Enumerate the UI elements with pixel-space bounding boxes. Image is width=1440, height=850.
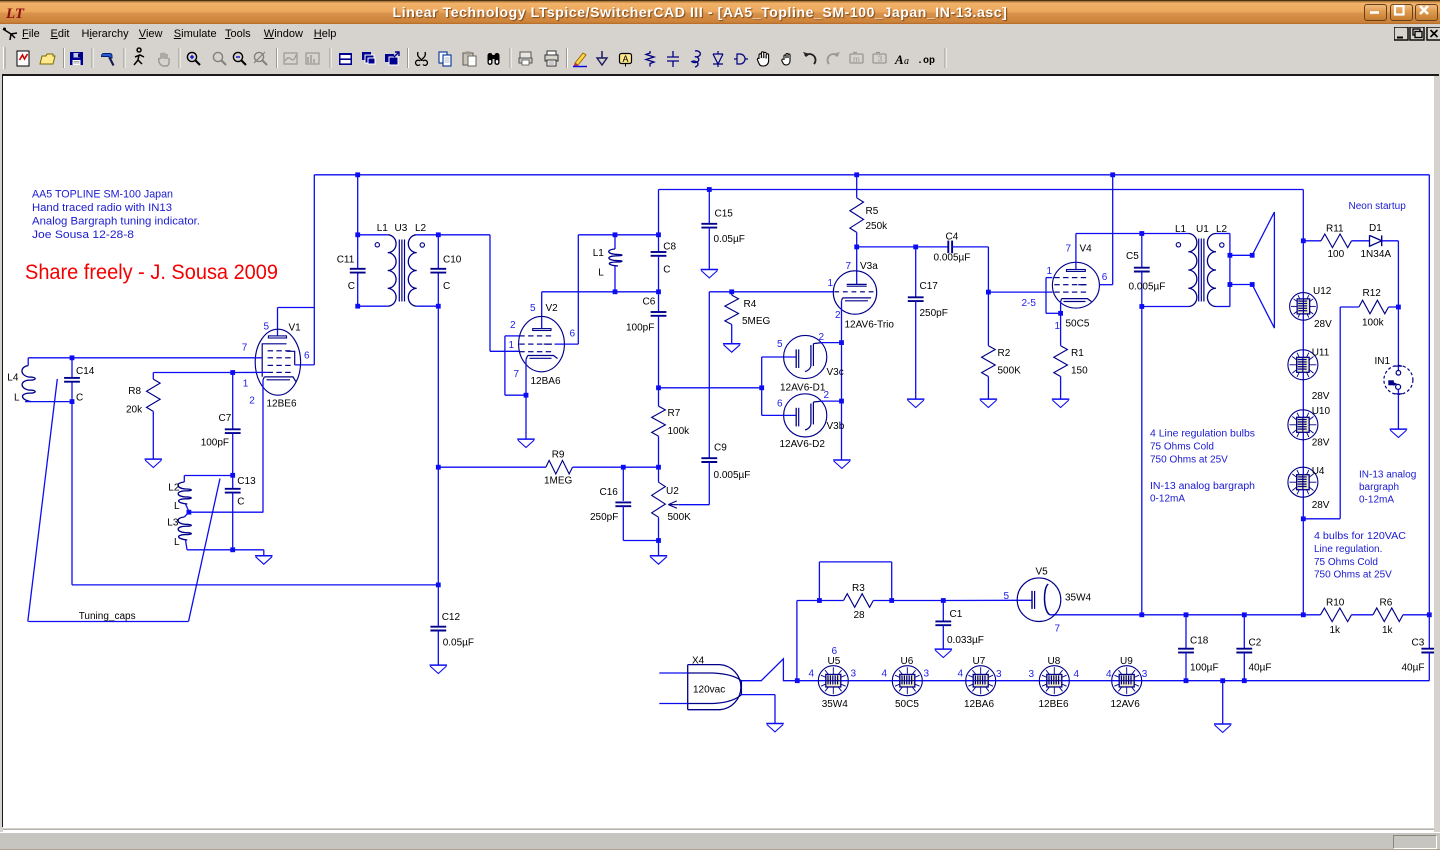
svg-text:75 Ohms Cold: 75 Ohms Cold [1314, 557, 1378, 568]
svg-text:R11: R11 [1326, 223, 1344, 234]
svg-text:Share freely - J. Sousa 2009: Share freely - J. Sousa 2009 [25, 260, 278, 284]
svg-text:C13: C13 [237, 476, 256, 487]
svg-text:1: 1 [1055, 321, 1061, 332]
svg-text:U10: U10 [1312, 406, 1331, 417]
svg-text:500K: 500K [668, 512, 692, 523]
svg-text:12BA6: 12BA6 [964, 699, 994, 710]
svg-text:4 Line regulation bulbs: 4 Line regulation bulbs [1150, 428, 1255, 439]
svg-text:100k: 100k [1362, 317, 1385, 328]
svg-text:C: C [663, 264, 670, 275]
svg-text:12AV6-Trio: 12AV6-Trio [845, 319, 895, 330]
svg-text:R6: R6 [1380, 597, 1393, 608]
svg-text:250pF: 250pF [920, 308, 948, 319]
svg-text:C: C [237, 496, 244, 507]
svg-text:V3b: V3b [827, 421, 845, 432]
svg-text:40µF: 40µF [1249, 662, 1272, 673]
svg-text:0.005µF: 0.005µF [934, 252, 971, 263]
svg-text:12AV6-D2: 12AV6-D2 [780, 438, 826, 449]
svg-text:C6: C6 [643, 296, 656, 307]
svg-text:Neon startup: Neon startup [1349, 201, 1407, 212]
svg-text:C16: C16 [600, 487, 619, 498]
svg-text:28V: 28V [1312, 437, 1330, 448]
svg-text:Tuning_caps: Tuning_caps [79, 611, 136, 622]
svg-text:X4: X4 [692, 655, 705, 666]
svg-text:28: 28 [854, 610, 866, 621]
svg-text:7: 7 [242, 342, 248, 353]
svg-text:C8: C8 [663, 241, 676, 252]
svg-text:4: 4 [958, 668, 964, 679]
svg-text:R10: R10 [1326, 597, 1345, 608]
svg-text:A: A [622, 54, 628, 64]
svg-text:4: 4 [882, 668, 888, 679]
svg-text:0.005µF: 0.005µF [714, 470, 751, 481]
svg-text:28V: 28V [1314, 319, 1332, 330]
svg-text:1: 1 [509, 340, 515, 351]
svg-text:120vac: 120vac [693, 684, 725, 695]
svg-text:35W4: 35W4 [822, 699, 849, 710]
svg-text:R12: R12 [1363, 288, 1382, 299]
svg-text:L2: L2 [168, 482, 180, 493]
svg-text:Hand traced radio with IN13: Hand traced radio with IN13 [32, 202, 172, 214]
svg-text:3: 3 [996, 669, 1002, 680]
svg-text:R3: R3 [852, 583, 865, 594]
svg-text:3: 3 [1142, 669, 1148, 680]
svg-text:C15: C15 [715, 208, 734, 219]
svg-text:L1: L1 [1175, 224, 1187, 235]
svg-text:6: 6 [832, 646, 838, 657]
svg-text:3: 3 [924, 668, 930, 679]
svg-text:C: C [348, 281, 355, 292]
svg-text:bargraph: bargraph [1359, 482, 1399, 493]
svg-text:2: 2 [249, 395, 255, 406]
svg-text:L1: L1 [593, 248, 605, 259]
svg-text:C1: C1 [950, 609, 963, 620]
svg-text:C10: C10 [443, 254, 462, 265]
svg-text:C12: C12 [442, 612, 461, 623]
svg-text:100pF: 100pF [201, 437, 229, 448]
svg-text:7: 7 [1055, 623, 1061, 634]
svg-text:U1: U1 [1196, 224, 1209, 235]
svg-text:100pF: 100pF [626, 322, 654, 333]
svg-text:28V: 28V [1312, 500, 1330, 511]
svg-text:IN-13 analog bargraph: IN-13 analog bargraph [1150, 481, 1255, 492]
svg-text:U9: U9 [1120, 655, 1133, 666]
svg-text:12BA6: 12BA6 [531, 376, 561, 387]
svg-text:U6: U6 [901, 655, 914, 666]
svg-text:L3: L3 [167, 517, 179, 528]
svg-text:5: 5 [530, 303, 536, 314]
svg-text:L: L [598, 267, 604, 278]
svg-text:L: L [174, 537, 180, 548]
svg-text:75 Ohms Cold: 75 Ohms Cold [1150, 441, 1214, 452]
svg-text:1MEG: 1MEG [544, 475, 573, 486]
svg-text:6: 6 [777, 398, 783, 409]
svg-text:U5: U5 [828, 655, 841, 666]
svg-text:28V: 28V [1312, 391, 1330, 402]
svg-text:C14: C14 [76, 366, 95, 377]
svg-text:50C5: 50C5 [895, 699, 919, 710]
svg-text:5MEG: 5MEG [742, 316, 771, 327]
svg-text:4: 4 [1106, 669, 1112, 680]
svg-text:U8: U8 [1048, 655, 1061, 666]
svg-text:m: m [853, 55, 860, 64]
svg-text:2: 2 [819, 332, 825, 343]
svg-text:0.05µF: 0.05µF [443, 637, 474, 648]
svg-text:a: a [904, 56, 909, 67]
svg-text:D1: D1 [1369, 223, 1382, 234]
svg-text:150: 150 [1071, 365, 1088, 376]
svg-text:IN1: IN1 [1375, 356, 1391, 367]
svg-text:V4: V4 [1080, 243, 1093, 254]
svg-text:C5: C5 [1126, 251, 1139, 262]
svg-text:U2: U2 [666, 486, 679, 497]
svg-text:R2: R2 [998, 348, 1011, 359]
svg-text:Line regulation.: Line regulation. [1314, 544, 1382, 555]
svg-text:.op: .op [917, 56, 935, 67]
svg-text:IN-13 analog: IN-13 analog [1359, 469, 1416, 480]
svg-text:R1: R1 [1071, 348, 1084, 359]
svg-text:50C5: 50C5 [1066, 318, 1090, 329]
svg-text:35W4: 35W4 [1065, 592, 1092, 603]
svg-text:U4: U4 [1312, 466, 1325, 477]
svg-text:6: 6 [1102, 272, 1108, 283]
svg-text:L: L [14, 392, 20, 403]
svg-text:C: C [443, 281, 450, 292]
svg-text:12AV6: 12AV6 [1111, 699, 1141, 710]
svg-text:C3: C3 [1412, 637, 1425, 648]
svg-text:C17: C17 [920, 281, 939, 292]
svg-text:1N34A: 1N34A [1361, 249, 1392, 260]
svg-text:0-12mA: 0-12mA [1150, 493, 1185, 504]
svg-text:C7: C7 [219, 413, 232, 424]
svg-text:100k: 100k [668, 426, 691, 437]
svg-text:U11: U11 [1312, 347, 1330, 358]
svg-text:5: 5 [264, 321, 270, 332]
svg-text:1k: 1k [1382, 625, 1394, 636]
svg-text:12BE6: 12BE6 [1039, 699, 1069, 710]
svg-text:5: 5 [777, 339, 783, 350]
svg-text:2-5: 2-5 [1022, 298, 1037, 309]
svg-text:U7: U7 [973, 655, 986, 666]
svg-text:V3c: V3c [827, 367, 844, 378]
svg-text:V5: V5 [1036, 566, 1049, 577]
svg-text:L2: L2 [1216, 224, 1228, 235]
svg-text:250pF: 250pF [590, 512, 618, 523]
svg-text:7: 7 [846, 261, 852, 272]
svg-text:L4: L4 [7, 372, 19, 383]
svg-text:C9: C9 [714, 442, 727, 453]
svg-text:250k: 250k [866, 221, 889, 232]
svg-text:1k: 1k [1330, 625, 1342, 636]
svg-text:C18: C18 [1190, 635, 1209, 646]
svg-text:12BE6: 12BE6 [267, 398, 297, 409]
svg-text:3: 3 [878, 55, 883, 64]
svg-text:R5: R5 [866, 206, 879, 217]
svg-text:6: 6 [570, 328, 576, 339]
svg-text:12AV6-D1: 12AV6-D1 [780, 382, 826, 393]
svg-text:750 Ohms at 25V: 750 Ohms at 25V [1314, 569, 1392, 580]
svg-text:L1: L1 [377, 223, 389, 234]
svg-text:750 Ohms at 25V: 750 Ohms at 25V [1150, 454, 1228, 465]
svg-text:1: 1 [1047, 266, 1053, 277]
svg-text:L2: L2 [415, 223, 427, 234]
svg-text:4: 4 [809, 668, 815, 679]
svg-text:Joe Sousa 12-28-8: Joe Sousa 12-28-8 [32, 229, 134, 241]
svg-text:Analog Bargraph tuning indicat: Analog Bargraph tuning indicator. [32, 215, 200, 227]
svg-text:6: 6 [304, 350, 310, 361]
svg-text:R9: R9 [552, 449, 565, 460]
svg-text:100µF: 100µF [1190, 662, 1219, 673]
svg-text:0.033µF: 0.033µF [947, 635, 984, 646]
svg-text:0-12mA: 0-12mA [1359, 494, 1394, 505]
svg-text:7: 7 [514, 369, 520, 380]
svg-text:500K: 500K [998, 365, 1022, 376]
svg-text:C4: C4 [946, 231, 959, 242]
svg-text:7: 7 [1066, 243, 1072, 254]
svg-text:20k: 20k [126, 404, 143, 415]
svg-text:C: C [76, 392, 83, 403]
svg-text:C2: C2 [1249, 637, 1262, 648]
svg-text:V2: V2 [546, 303, 559, 314]
svg-text:0.005µF: 0.005µF [1129, 281, 1166, 292]
svg-text:2: 2 [510, 320, 516, 331]
svg-text:0.05µF: 0.05µF [714, 234, 745, 245]
svg-text:3: 3 [851, 668, 857, 679]
svg-text:V1: V1 [289, 322, 302, 333]
svg-text:2: 2 [835, 310, 841, 321]
svg-text:5: 5 [1004, 591, 1010, 602]
svg-text:40µF: 40µF [1402, 662, 1425, 673]
svg-text:4: 4 [1074, 669, 1080, 680]
svg-text:U12: U12 [1313, 286, 1332, 297]
svg-text:2: 2 [824, 390, 830, 401]
svg-text:3: 3 [1029, 669, 1035, 680]
svg-text:C11: C11 [337, 254, 355, 265]
svg-text:A: A [894, 52, 904, 67]
svg-text:1: 1 [828, 278, 834, 289]
svg-text:V3a: V3a [860, 261, 878, 272]
svg-text:100: 100 [1328, 249, 1345, 260]
svg-text:R8: R8 [128, 386, 141, 397]
svg-text:AA5 TOPLINE SM-100 Japan: AA5 TOPLINE SM-100 Japan [32, 188, 173, 200]
svg-text:L: L [174, 501, 180, 512]
svg-text:4 bulbs for 120VAC: 4 bulbs for 120VAC [1314, 531, 1406, 542]
svg-text:R7: R7 [668, 408, 681, 419]
svg-text:U3: U3 [395, 223, 408, 234]
svg-text:1: 1 [243, 378, 249, 389]
svg-text:R4: R4 [744, 299, 757, 310]
